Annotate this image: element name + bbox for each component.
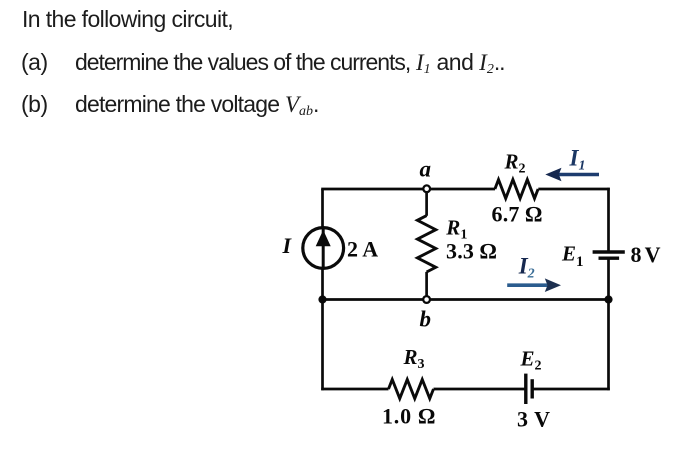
wire: middle branch node a down to R1 [425, 189, 428, 216]
resistor R2 (horizontal zigzag) [495, 180, 538, 199]
svg-text:1.0 Ω: 1.0 Ω [382, 404, 436, 429]
junction dot left [318, 295, 326, 303]
svg-text:R3: R3 [403, 345, 425, 372]
wire: right vertical rail bottom segment (battery E1 to bottom outer corner) [607, 259, 610, 391]
current source arrow (points up) [316, 229, 331, 267]
svg-text:E1: E1 [561, 242, 584, 271]
wire: bottom outer from battery E2 to right corner [532, 388, 610, 391]
svg-text:I: I [282, 233, 293, 258]
wire: left vertical rail bottom segment (current source to bottom outer corner) [321, 268, 324, 390]
battery E1 short plate [599, 257, 620, 260]
current arrow I1 (blue, points left) [545, 168, 599, 182]
resistor R3 (horizontal zigzag) [389, 380, 434, 399]
problem statement text [22, 8, 233, 31]
wire: bottom outer from left corner to R3 [321, 388, 388, 391]
svg-text:3 V: 3 V [517, 407, 551, 432]
wire: middle branch R1 down to node b [425, 272, 428, 300]
svg-text:R2: R2 [504, 149, 526, 176]
battery E2 short plate [531, 379, 534, 398]
svg-text:3.3 Ω: 3.3 Ω [446, 239, 497, 264]
wire: left vertical rail top segment (corner to current source) [321, 189, 324, 228]
wire: right vertical rail top segment (corner to battery E1) [607, 188, 610, 252]
svg-text:E2: E2 [520, 346, 542, 373]
wire: top horizontal from left corner to R2 [321, 188, 495, 191]
svg-text:6.7 Ω: 6.7 Ω [492, 202, 543, 227]
svg-text:2 A: 2 A [347, 236, 378, 261]
current source I (circle) [303, 228, 344, 269]
svg-text:b: b [420, 307, 432, 332]
battery E1 long plate [593, 250, 625, 253]
svg-text:8 V: 8 V [631, 242, 661, 267]
svg-text:I2: I2 [518, 254, 535, 282]
node b (open terminal) [423, 296, 430, 303]
wire: top horizontal from R2 to right corner [538, 188, 610, 191]
junction dot right [604, 295, 612, 303]
wire: bottom outer from R3 to battery E2 [434, 388, 526, 391]
svg-text:I1: I1 [569, 146, 586, 174]
current arrow I2 (blue, points right) [507, 278, 561, 292]
wire: inner bottom horizontal rail [323, 298, 609, 301]
battery E2 long plate [524, 374, 527, 404]
svg-text:a: a [420, 157, 432, 182]
resistor R1 (vertical zigzag) [417, 216, 435, 272]
node a (open terminal) [423, 185, 430, 192]
